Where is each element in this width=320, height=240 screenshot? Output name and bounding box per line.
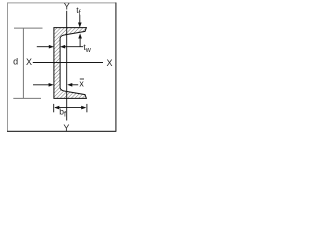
dimension tf bottom arrow [78,33,82,46]
border frame [7,3,116,132]
dimension tw left arrow [37,45,54,49]
dimension d line [13,28,42,98]
dimension bf extension line left [53,104,55,112]
svg-text:d: d [13,57,18,67]
dimension x-bar right arrow [67,83,78,87]
svg-text:Y: Y [64,1,70,11]
background [0,0,122,135]
svg-text:X: X [26,57,32,67]
Y-Y axis line [66,11,68,121]
svg-text:X: X [106,58,112,68]
X-X axis line [33,62,103,64]
dimension bf label [59,107,66,119]
channel section (hatched C-shape) [54,28,87,99]
dimension x-bar left arrow [33,83,54,87]
dimension tw right arrow / leader [60,45,83,49]
dimension bf extension line right [86,104,88,112]
dimension bf arrows and line [54,106,86,110]
svg-text:x: x [79,78,84,88]
dimension x-bar label [79,78,84,88]
svg-text:Y: Y [63,123,69,133]
dimension tf top arrow [78,15,82,28]
